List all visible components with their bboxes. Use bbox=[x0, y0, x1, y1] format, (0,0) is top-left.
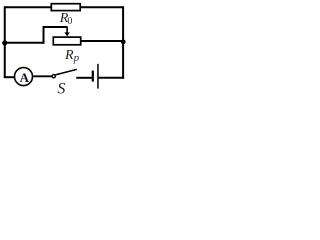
svg-text:p: p bbox=[73, 52, 80, 64]
wire RP box to right wire bbox=[81, 40, 123, 42]
switch S pivot contact bbox=[52, 75, 55, 78]
resistor R0 bbox=[51, 4, 80, 11]
rheostat RP box bbox=[53, 37, 80, 45]
battery positive plate (long thin) bbox=[97, 64, 99, 89]
wire battery to bottom-right corner bbox=[99, 77, 124, 79]
wiper arrowhead bbox=[64, 32, 69, 36]
svg-text:A: A bbox=[20, 70, 30, 85]
node junction dot left bbox=[2, 40, 7, 45]
wire branch lower horizontal bbox=[5, 42, 44, 44]
wire branch upper horizontal bbox=[43, 26, 68, 28]
ammeter A body circle bbox=[15, 68, 33, 86]
wire branch vertical jog bbox=[43, 27, 45, 44]
svg-text:R: R bbox=[64, 48, 74, 63]
wire R0 box to top-right corner bbox=[81, 6, 123, 8]
svg-text:S: S bbox=[57, 81, 65, 95]
wire left vertical bbox=[4, 6, 6, 77]
svg-text:0: 0 bbox=[67, 16, 72, 27]
wire top-left to R0 box bbox=[5, 6, 51, 8]
node junction dot right bbox=[121, 39, 126, 44]
battery negative plate (short thick) bbox=[92, 71, 94, 82]
wiper arrow shaft bbox=[66, 27, 68, 34]
wire right vertical bbox=[122, 6, 124, 79]
wire switch to battery bbox=[76, 77, 92, 79]
switch S lever bbox=[55, 69, 76, 75]
wire ammeter to switch bbox=[33, 75, 52, 77]
wire bottom-left corner to ammeter bbox=[4, 76, 14, 78]
